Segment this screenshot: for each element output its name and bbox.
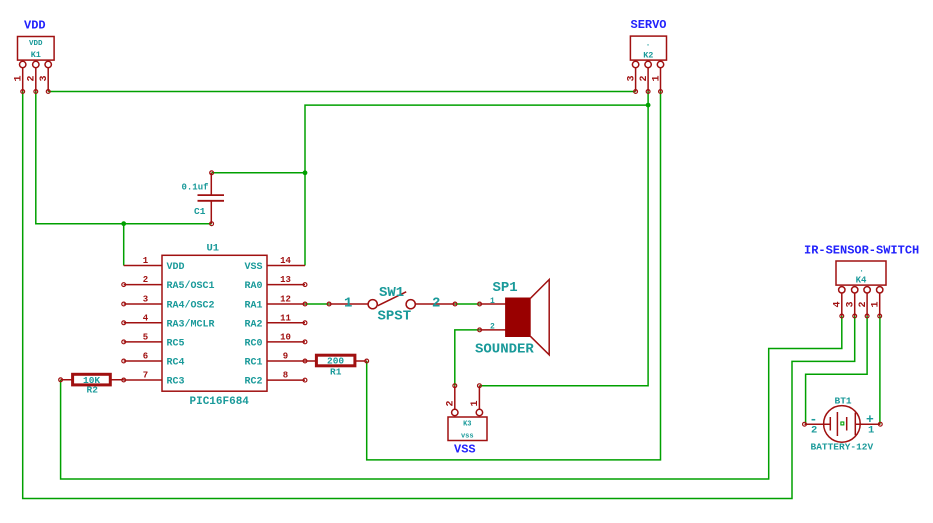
svg-text:SW1: SW1 [379,285,404,301]
svg-text:4: 4 [833,301,844,307]
svg-text:200: 200 [327,356,344,367]
connector K1 [18,37,55,92]
svg-text:14: 14 [280,256,291,266]
svg-text:R1: R1 [330,366,342,377]
svg-text:BATTERY-12V: BATTERY-12V [811,442,874,453]
svg-text:R2: R2 [87,384,99,395]
wire chip pin12 to SW1 [305,303,329,305]
svg-text:RC1: RC1 [244,358,262,369]
svg-text:SOUNDER: SOUNDER [475,342,534,358]
capacitor C1 [182,173,225,224]
svg-text:BT1: BT1 [835,396,852,407]
svg-text:.: . [646,40,651,49]
connector K3 [448,386,487,441]
svg-text:IR-SENSOR-SWITCH: IR-SENSOR-SWITCH [804,244,919,258]
svg-text:VSS: VSS [244,262,262,273]
svg-text:10: 10 [280,332,291,342]
svg-text:3: 3 [143,295,148,305]
svg-text:9: 9 [283,352,288,362]
svg-text:VDD: VDD [29,40,43,48]
svg-text:RA2: RA2 [244,319,262,330]
svg-text:PIC16F684: PIC16F684 [190,396,250,408]
svg-text:13: 13 [280,275,291,285]
svg-text:U1: U1 [207,243,220,255]
svg-text:1: 1 [871,301,882,307]
svg-text:3: 3 [39,75,50,81]
svg-text:RA3/MCLR: RA3/MCLR [167,318,215,330]
svg-text:C1: C1 [194,206,206,217]
wire net K1.3 to SERVO.3 [48,91,635,93]
svg-text:1: 1 [868,425,874,437]
connector K4 [836,261,886,316]
svg-text:2: 2 [27,75,38,81]
svg-text:RA4/OSC2: RA4/OSC2 [167,300,215,312]
svg-text:VDD: VDD [24,19,46,33]
junction VSS at C1 top [303,170,308,175]
svg-text:K1: K1 [31,50,41,60]
svg-text:K4: K4 [856,276,867,286]
switch SW1 [329,285,455,325]
svg-text:6: 6 [143,352,148,362]
wire SW1 to SP1 pin1 [455,303,480,305]
svg-text:RC5: RC5 [167,338,185,349]
svg-text:2: 2 [811,425,817,437]
wire IR pin2 to battery minus [806,316,868,424]
wire net K1.1 to IR pin3 (bottom route) [23,92,855,499]
wire SP1 pin2 to K3.2 [455,330,480,386]
svg-text:VDD: VDD [167,262,185,273]
svg-text:2: 2 [432,296,440,312]
speaker SP1 SOUNDER [475,280,549,358]
svg-text:vss: vss [461,433,474,441]
wire net SERVO.1 to R1 right [367,92,661,460]
node endpoint rings [21,90,882,427]
svg-text:1: 1 [490,297,495,306]
svg-text:RA1: RA1 [244,301,262,312]
svg-text:2: 2 [490,322,495,331]
svg-text:4: 4 [143,313,149,323]
svg-text:RC2: RC2 [244,377,262,388]
junction VDD at pin1 branch [121,221,126,226]
svg-text:1: 1 [344,296,352,312]
wire VDD net: K1 pin2 down and right to C1 bottom [36,92,212,266]
svg-text:K3: K3 [463,421,471,429]
svg-text:K2: K2 [643,51,653,61]
svg-text:3: 3 [846,301,857,307]
wire net R2 left to IR pin4 (bottom route) [61,316,842,479]
svg-text:RC0: RC0 [244,338,262,349]
chip pin numbers [143,256,292,381]
chip pin names [167,262,263,388]
resistor R2 [61,374,124,395]
svg-text:3: 3 [626,75,637,81]
svg-text:VSS: VSS [454,443,476,457]
svg-text:2: 2 [143,275,148,285]
svg-text:SERVO: SERVO [631,18,667,32]
svg-text:11: 11 [280,313,291,323]
svg-text:5: 5 [143,332,148,342]
svg-text:12: 12 [280,295,291,305]
svg-text:RC4: RC4 [167,358,185,369]
svg-text:2: 2 [446,400,457,406]
chip pin stubs [124,266,305,381]
wire IR pin1 to battery plus [879,316,881,424]
svg-text:RA5/OSC1: RA5/OSC1 [167,280,215,292]
svg-text:1: 1 [14,75,25,81]
svg-text:1: 1 [470,400,481,406]
svg-text:2: 2 [639,75,650,81]
wire VSS net: C1 top, chip pin14, SERVO.2, K3.1 [212,92,648,386]
op-amp/IC U1 PIC16F684 [124,243,305,409]
svg-text:SPST: SPST [378,309,412,325]
connector K2 [630,36,666,91]
resistor R1 [305,355,367,377]
junction VSS at SERVO.2 [646,103,651,108]
svg-text:SP1: SP1 [493,280,518,296]
svg-text:7: 7 [143,371,148,381]
battery BT1 [805,396,881,453]
svg-text:8: 8 [283,371,288,381]
svg-text:.: . [859,266,864,275]
svg-text:RC3: RC3 [167,377,185,388]
svg-text:0.1uf: 0.1uf [182,183,209,193]
svg-text:1: 1 [143,256,149,266]
svg-text:1: 1 [651,75,662,81]
svg-text:RA0: RA0 [244,281,262,292]
svg-text:2: 2 [858,301,869,307]
